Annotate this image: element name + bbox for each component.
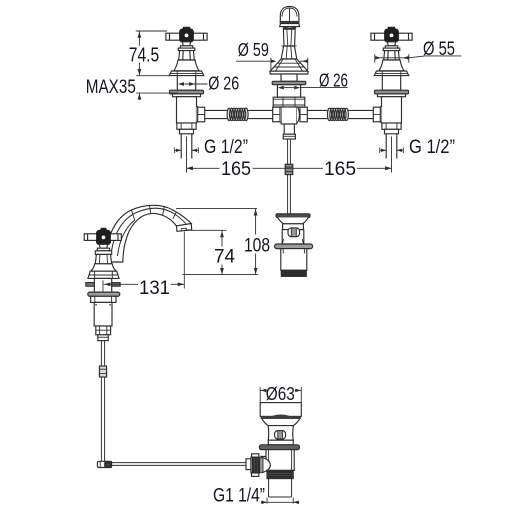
T-body right port dome (297, 107, 300, 123)
Ø55 leader under label (409, 56, 462, 58)
G1/2 pointer arrows (402, 148, 404, 153)
under-deck cup (91, 296, 116, 302)
valve body tube (177, 76, 195, 91)
waste lower body (281, 249, 307, 271)
left pipe coil (227, 108, 248, 120)
drain threads (267, 470, 293, 478)
side-view spout curve (105, 205, 192, 262)
T-body left port dome (279, 107, 282, 123)
svg-text:108: 108 (244, 235, 270, 256)
pop-up rod upper (287, 139, 289, 214)
spout body tube (Ø26) (277, 85, 300, 98)
svg-text:G 1/2”: G 1/2” (204, 137, 248, 158)
valve side port (197, 106, 199, 123)
G1 1/4 dim extension lines (266, 498, 268, 504)
svg-text:G1 1/4”: G1 1/4” (213, 485, 265, 506)
faucet centerline (102, 280, 104, 291)
svg-text:Ø 26: Ø 26 (208, 74, 239, 94)
waste upper cup (283, 224, 304, 230)
wire left flex pipe (205, 109, 273, 111)
max35 arrow (138, 93, 140, 100)
supply nut (96, 326, 111, 335)
valve bell flare (174, 60, 199, 71)
rod end collar (246, 459, 251, 470)
svg-text:Ø 26: Ø 26 (319, 71, 348, 91)
dim 74 line (221, 230, 223, 246)
svg-text:74.5: 74.5 (129, 44, 160, 66)
spout knob dark band (280, 21, 299, 23)
valve side port (379, 106, 381, 123)
waste flange taper (278, 217, 309, 223)
valve threaded collar (177, 123, 196, 129)
wire right flex pipe (307, 109, 373, 111)
G1/2 pointer arrows (174, 148, 176, 153)
spout apex extension line (176, 208, 257, 210)
waste body with pin hole (282, 230, 304, 244)
spout mid section (281, 46, 297, 59)
dim 74.5 line lower (138, 63, 140, 76)
valve threaded collar (382, 123, 401, 129)
drain ring (268, 440, 293, 445)
spout contour line 2 (118, 220, 135, 256)
side valve collars (97, 248, 109, 251)
svg-text:Ø63: Ø63 (266, 384, 295, 404)
svg-text:165: 165 (221, 159, 251, 180)
drain cap cylinder (260, 403, 301, 417)
waste wide flange (275, 244, 313, 249)
waste taper lines (282, 239, 283, 244)
valve bonnet hex (179, 51, 195, 60)
drain D1 Ø63 side lines (259, 387, 261, 402)
left valve V1 (cross-handle, top view) (166, 27, 207, 173)
drain left stub (261, 456, 266, 468)
side valve escutcheon base (88, 271, 119, 278)
valve handle hub (182, 27, 191, 30)
gear collar (260, 458, 263, 473)
valve locknut flange (375, 90, 409, 94)
rod coupling (99, 366, 106, 377)
gear castellated joint (252, 454, 259, 457)
T-body right nut (300, 107, 307, 122)
supply collar (98, 335, 108, 341)
dim 165 line (187, 167, 220, 169)
spout outlet stub (284, 124, 294, 134)
shank left stub (86, 283, 94, 287)
outlet extension line (184, 229, 227, 231)
valve escutcheon (374, 71, 409, 76)
waste pin hole (288, 228, 300, 237)
valve handle hub (387, 27, 396, 30)
max35 extension line (136, 92, 178, 94)
under-deck wide flange (88, 292, 120, 296)
side valve bell flare (91, 264, 117, 271)
shank right stub (112, 283, 120, 287)
outlet drop extension line (183, 232, 185, 289)
side valve hex body (95, 254, 111, 263)
valve stem and collars (182, 42, 190, 46)
spout cross tick 2 (150, 205, 151, 214)
drain wide flange (259, 445, 299, 450)
elbow joint (97, 461, 111, 467)
T-body left nut (273, 107, 280, 122)
Ø26 arrows on left valve body (185, 83, 208, 85)
ball dome on drain (262, 457, 270, 472)
spout S1 dome knob (280, 6, 299, 22)
G1 1/4 dim line (261, 501, 299, 503)
right valve V2 (cross-handle, top view) (371, 27, 412, 173)
supply cylinder (94, 302, 112, 326)
valve lower body (177, 97, 197, 123)
spout cross tick 1 (132, 210, 135, 220)
dim 74.5 line upper (138, 31, 140, 46)
waste threads (281, 270, 306, 276)
spout escutcheon neck (281, 74, 297, 81)
spout cone flare (Ø59) (270, 59, 308, 71)
svg-text:Ø 55: Ø 55 (423, 39, 455, 60)
drain cap dark rim with plug dome (261, 415, 301, 420)
dim 74.5 top extension line (136, 30, 167, 32)
pop-up vertical rod (100, 341, 102, 462)
pop-up waste W1 top flange (276, 214, 310, 218)
spout T-body (281, 107, 297, 124)
spout cross tick 3 (163, 206, 165, 215)
valve bell flare (379, 60, 404, 71)
outlet collar (283, 134, 295, 139)
side handle hub (100, 228, 107, 231)
dim 131 line (104, 283, 138, 285)
horizontal actuator rod (112, 462, 252, 464)
svg-text:G 1/2”: G 1/2” (409, 137, 455, 158)
valve G1/2 tailpiece (396, 134, 398, 159)
Ø63 dim arrows (260, 389, 267, 391)
valve body tube (382, 76, 400, 91)
drain funnel taper (262, 419, 300, 426)
deck extension line (136, 75, 170, 77)
spout flange (272, 81, 306, 84)
spout tapered neck (283, 29, 295, 46)
valve stem and collars (387, 42, 395, 46)
under-deck shank (94, 278, 111, 292)
svg-text:MAX35: MAX35 (86, 77, 136, 98)
valve bonnet hex (384, 51, 400, 60)
spout hex nut (273, 97, 305, 107)
valve cross-handle bar (166, 33, 207, 40)
right pipe coil (327, 108, 348, 120)
Ø55 dim line and arrows (375, 57, 409, 59)
valve G1/2 tailpiece (180, 134, 182, 159)
valve lower body (382, 97, 402, 123)
Ø59 dim ticks and arrows (270, 58, 272, 70)
svg-text:74: 74 (214, 246, 235, 267)
drain body (266, 450, 294, 471)
valve escutcheon (169, 71, 204, 76)
drain neck (268, 426, 293, 441)
dim 108 line (255, 209, 257, 235)
deck base line (183, 274, 259, 276)
svg-text:131: 131 (139, 278, 170, 299)
svg-text:Ø 59: Ø 59 (238, 40, 269, 60)
drain tail tube (268, 479, 270, 497)
rod coupling at 165 line (285, 164, 293, 174)
side valve stem (99, 244, 107, 248)
svg-text:165: 165 (324, 159, 356, 180)
drain pin hole (275, 431, 286, 439)
spout contour line 1 (112, 208, 187, 251)
Ø26 arrows on spout body with leader (284, 87, 294, 89)
spout cross tick 4 (173, 212, 177, 219)
spout outlet block with aerator (176, 224, 191, 232)
valve cross-handle bar (371, 33, 412, 40)
side handle bar (84, 234, 121, 241)
spout knob lower lip (280, 24, 300, 27)
valve locknut flange (170, 90, 204, 94)
